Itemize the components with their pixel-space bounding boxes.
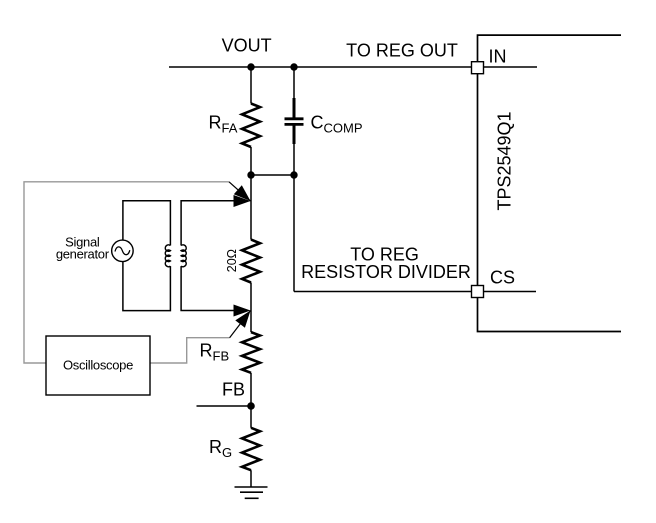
- svg-text:RFA: RFA: [209, 113, 238, 136]
- svg-text:CCOMP: CCOMP: [311, 113, 363, 136]
- svg-text:VOUT: VOUT: [222, 35, 272, 55]
- svg-text:IN: IN: [489, 47, 507, 67]
- svg-text:Oscilloscope: Oscilloscope: [63, 358, 133, 373]
- svg-text:FB: FB: [222, 380, 245, 400]
- svg-text:generator: generator: [56, 247, 110, 262]
- svg-text:TO REG OUT: TO REG OUT: [346, 40, 458, 60]
- svg-text:RG: RG: [209, 437, 232, 460]
- svg-text:RESISTOR DIVIDER: RESISTOR DIVIDER: [301, 262, 471, 282]
- svg-text:20Ω: 20Ω: [225, 249, 239, 272]
- svg-text:RFB: RFB: [200, 341, 230, 364]
- svg-text:TPS2549Q1: TPS2549Q1: [495, 111, 515, 210]
- svg-text:CS: CS: [490, 268, 515, 288]
